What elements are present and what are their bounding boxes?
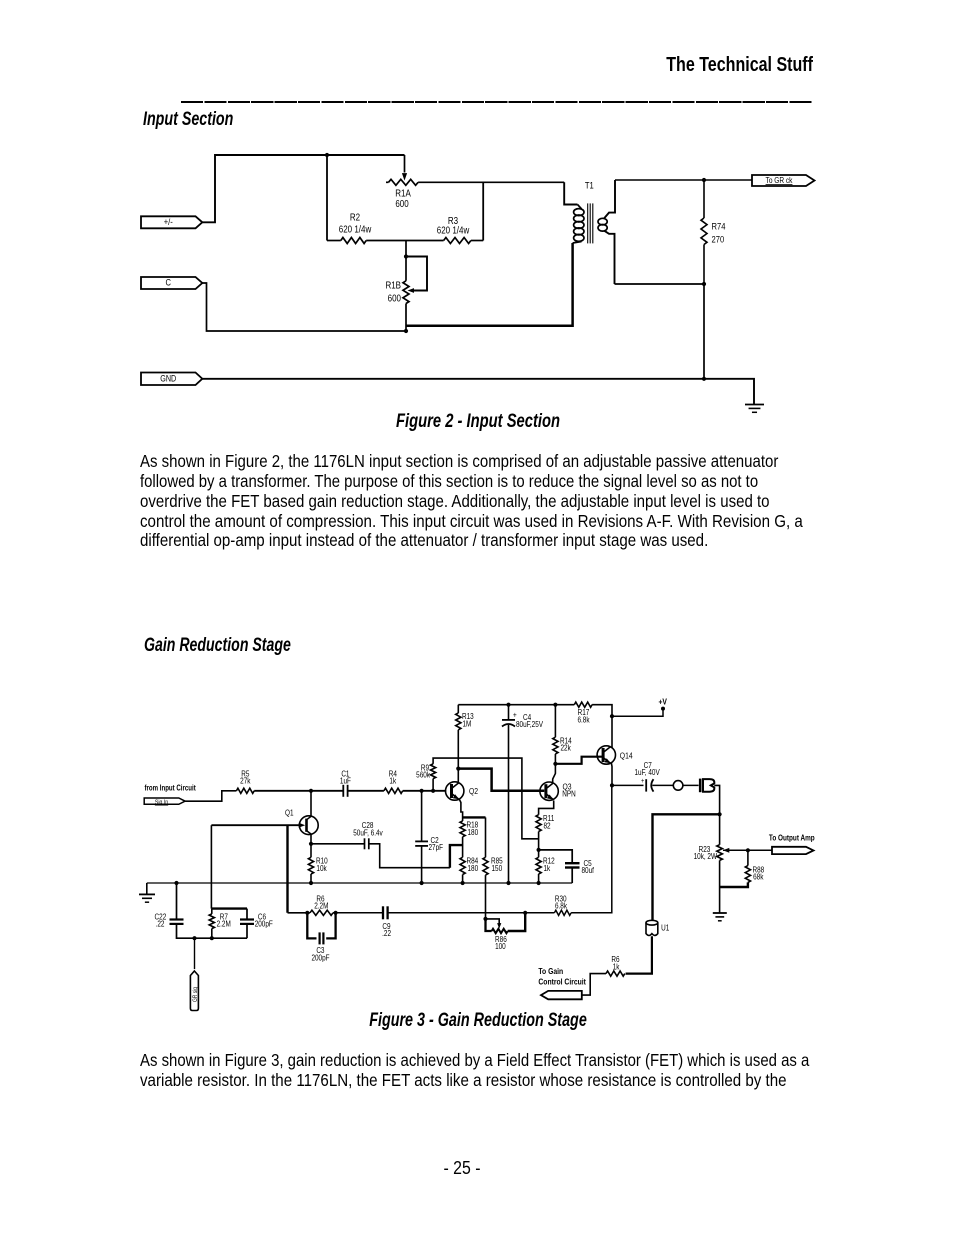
svg-text:R74: R74: [712, 221, 726, 232]
caption Figure 2 - Input Section: [396, 412, 560, 431]
resistor R4 1k: [384, 769, 446, 794]
wire Q1 source to node: [309, 834, 313, 846]
connector circle (patch point): [673, 781, 698, 791]
wire Q1 drain: [310, 791, 312, 816]
svg-text:To Output Amp: To Output Amp: [769, 833, 815, 843]
resistor R88 68k: [720, 850, 765, 887]
resistor R10 10k: [308, 844, 327, 883]
wire R6 row to C9: [336, 912, 383, 914]
connector To GR ck: [752, 175, 815, 186]
capacitor C4 80uF,25V (electrolytic): [502, 705, 543, 883]
svg-text:100: 100: [495, 941, 506, 951]
svg-text:Q2: Q2: [469, 786, 478, 796]
svg-text:27pF: 27pF: [429, 842, 444, 852]
page header title: [666, 55, 813, 75]
wire R14 node to Q14 base: [555, 757, 603, 764]
resistor R74 270: [701, 180, 726, 379]
wire R7/C6 top heavy: [212, 907, 247, 909]
wire R14 node to Q3 collector: [553, 764, 556, 784]
svg-text:1uF, 40V: 1uF, 40V: [634, 767, 659, 777]
svg-text:10k: 10k: [316, 863, 327, 873]
svg-text:50uF, 6.4v: 50uF, 6.4v: [353, 828, 383, 838]
svg-text:R1B: R1B: [385, 280, 401, 291]
node C4 top: [506, 703, 510, 707]
svg-text:620 1/4w: 620 1/4w: [339, 223, 372, 234]
wire bottom node row (C22/R7/C6): [192, 936, 247, 940]
svg-text:1k: 1k: [613, 962, 620, 972]
wire secondary top row to GR ck: [615, 178, 752, 182]
svg-text:180: 180: [468, 863, 479, 873]
potentiometer R23 10k, 2W: [694, 844, 772, 913]
node Q1 drain junction: [309, 789, 313, 793]
potentiometer R1B 600 with wiper loop: [385, 257, 427, 332]
svg-text:600: 600: [395, 198, 408, 209]
svg-text:80uF,25V: 80uF,25V: [516, 719, 543, 729]
svg-text:80uf: 80uf: [582, 865, 595, 875]
svg-text:Q14: Q14: [620, 751, 633, 761]
capacitor C1 1uF: [311, 769, 384, 797]
node dots on ground row: [174, 881, 540, 885]
svg-text:2.2M: 2.2M: [314, 901, 328, 911]
connector GND: [141, 373, 202, 386]
connector C: [141, 277, 202, 289]
resistor R3 620 1/4w: [406, 215, 483, 243]
svg-text:To GR ck: To GR ck: [766, 175, 793, 185]
node R14 top: [553, 703, 557, 707]
svg-text:27k: 27k: [240, 776, 251, 786]
resistor R7 2.2M: [209, 909, 231, 939]
svg-text:T1: T1: [585, 180, 594, 191]
paragraph 1: [140, 453, 778, 471]
ground symbol fig3 right: [713, 913, 727, 921]
svg-text:6.8k: 6.8k: [577, 715, 589, 725]
svg-text:200pF: 200pF: [255, 919, 274, 929]
resistor R11 82: [536, 813, 554, 850]
svg-text:Control Circuit: Control Circuit: [538, 977, 586, 987]
connector plug symbol: [700, 779, 714, 793]
label To Output Amp: [769, 833, 815, 843]
resistor R30 6.8k: [525, 785, 612, 915]
label To Gain Control Circuit: [538, 966, 586, 986]
transistor Q2: [446, 782, 479, 800]
svg-text:1k: 1k: [389, 776, 396, 786]
svg-text:82: 82: [544, 821, 551, 831]
wire Q1 gate row: [211, 824, 299, 826]
wire GND row: [202, 377, 754, 404]
resistor R12 1k: [536, 850, 555, 883]
heading Input Section: [143, 110, 233, 129]
node junction at bottom of R1B: [404, 329, 408, 333]
node R30 row junction: [523, 911, 527, 915]
wire Q14 emitter to node: [610, 763, 614, 788]
svg-text:150: 150: [492, 863, 503, 873]
svg-text:22k: 22k: [561, 743, 572, 753]
heading Gain Reduction Stage: [144, 636, 291, 655]
node C2 branch junction: [420, 789, 424, 793]
svg-text:C: C: [166, 277, 171, 288]
capacitor C9 .22: [382, 906, 525, 938]
paragraph 2: [140, 1052, 809, 1070]
transistor Q3: [540, 782, 576, 801]
svg-text:1M: 1M: [463, 719, 472, 729]
svg-text:560k: 560k: [416, 770, 430, 780]
potentiometer R1A 600: [386, 155, 418, 209]
svg-text:Sig In: Sig In: [155, 799, 168, 806]
wire attenuator left vertical: [326, 155, 328, 241]
wire plug output down: [714, 785, 721, 844]
wire gate heavy vertical down to R6 row: [286, 825, 288, 913]
wire Q2 collector to R13 node: [456, 767, 460, 784]
svg-text:1k: 1k: [544, 863, 551, 873]
resistor R85 150: [483, 817, 503, 919]
svg-text:R2: R2: [350, 211, 360, 222]
wire bottom heavy to transformer primary: [406, 243, 573, 326]
svg-text:NPN: NPN: [562, 789, 576, 799]
resistor R13 1M: [456, 705, 474, 769]
connector To Output Amp: [772, 847, 814, 854]
capacitor C28 50uF, 6.4v: [311, 820, 463, 868]
svg-text:10k, 2W: 10k, 2W: [694, 851, 718, 861]
label from Input Circuit: [145, 782, 197, 792]
ground row fig3: [147, 882, 572, 884]
svg-text:.22: .22: [382, 928, 391, 938]
wire from C to R1B bottom: [202, 283, 406, 331]
horizontal rule: [181, 101, 813, 103]
node junction on top wire: [325, 153, 329, 157]
node R11/R12/C5 junction: [537, 848, 541, 852]
capacitor C5 80uf: [539, 850, 595, 883]
lamp U1 (LDR): [646, 920, 669, 935]
capacitor C2 27pF: [415, 791, 443, 883]
svg-text:200pF: 200pF: [311, 953, 330, 963]
svg-text:GND: GND: [160, 374, 176, 384]
connector +/- (input): [141, 216, 202, 228]
svg-text:U1: U1: [661, 923, 669, 933]
wire from +/- to top rail: [202, 155, 404, 222]
resistor R6 2.2M with capacitor C3 200pF parallel: [288, 894, 338, 963]
svg-text:180: 180: [468, 827, 479, 837]
wire branch to U1 heavy: [653, 814, 720, 920]
wire secondary bottom row: [615, 282, 707, 286]
svg-text:270: 270: [712, 234, 725, 245]
capacitor C22 .22: [155, 883, 195, 938]
svg-text:620 1/4w: 620 1/4w: [437, 225, 470, 236]
caption Figure 3 - Gain Reduction Stage: [369, 1011, 587, 1030]
node wiper/R88 junction: [746, 848, 750, 852]
top rail +V: [458, 702, 612, 716]
capacitor C6 200pF: [240, 909, 273, 939]
wire Q3 emitter to R11: [539, 801, 554, 815]
wire U1 to R6: [626, 936, 652, 973]
power +V terminal: [610, 697, 668, 719]
svg-text:68k: 68k: [753, 872, 764, 882]
capacitor C7 1uF, 40V: [612, 760, 674, 791]
connector To Gain Control Circuit: [541, 991, 582, 999]
ground symbol fig3 left: [139, 883, 155, 902]
node R9 bottom junction: [431, 789, 435, 793]
wire Q2 emitter node: [459, 799, 485, 821]
resistor R17 6.8k (label): [577, 707, 589, 724]
svg-text:2.2M: 2.2M: [217, 919, 231, 929]
transformer T1: [564, 180, 615, 284]
wire Sig In to main row: [185, 791, 236, 801]
svg-text:+: +: [641, 777, 645, 785]
connector GR sig (vertical flag): [190, 938, 199, 1010]
resistor R9 560k: [416, 758, 538, 839]
resistor R84 180: [460, 856, 478, 883]
svg-text:6.8k: 6.8k: [555, 901, 567, 911]
resistor R18 180: [460, 820, 478, 857]
svg-text:GR sig: GR sig: [193, 987, 200, 1002]
resistor R5 27k: [236, 769, 311, 794]
wire heavy Q2 collector to Q3 base: [458, 769, 544, 791]
transistor Q14: [597, 746, 633, 764]
wire gate left vertical down to R7: [210, 825, 212, 908]
svg-text:+V: +V: [658, 697, 667, 707]
trimmer R86 100: [483, 913, 525, 951]
connector Sig In: [144, 798, 185, 806]
svg-text:Q1: Q1: [285, 808, 294, 818]
svg-text:600: 600: [388, 293, 401, 304]
svg-text:from Input Circuit: from Input Circuit: [145, 782, 197, 792]
resistor R6 1k: [582, 954, 625, 995]
ground symbol fig2: [745, 405, 764, 413]
wire Q14 collector: [611, 716, 613, 748]
svg-text:1uF: 1uF: [340, 776, 352, 786]
transistor Q1 (FET): [285, 808, 318, 835]
wire R1A to transformer and down to R3: [418, 182, 564, 240]
page number: [443, 1159, 480, 1178]
svg-text:.22: .22: [156, 919, 165, 929]
node junction below R2/R3: [404, 241, 408, 259]
svg-text:To Gain: To Gain: [538, 966, 563, 976]
resistor R14 22k: [553, 705, 572, 766]
svg-text:+/-: +/-: [164, 216, 173, 227]
resistor R2 620 1/4w: [327, 211, 406, 243]
svg-text:R1A: R1A: [395, 188, 411, 199]
